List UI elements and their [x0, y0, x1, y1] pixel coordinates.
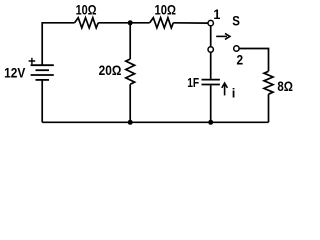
svg-text:20Ω: 20Ω [99, 62, 122, 78]
wire from switch pole to capacitor [210, 52, 212, 79]
svg-text:i: i [232, 86, 236, 101]
current arrow i pointing up beside capacitor [224, 84, 226, 95]
switch contact terminal 1 [208, 20, 213, 25]
svg-text:8Ω: 8Ω [277, 78, 293, 94]
capacitor C1 plates [202, 80, 220, 85]
voltage source V1 12V battery plates [31, 65, 54, 80]
switch blade wire from contact 1 to pole [210, 26, 212, 47]
resistor R1 10ohm zigzag [75, 18, 99, 28]
svg-text:2: 2 [236, 52, 243, 68]
battery plus polarity mark [29, 58, 36, 65]
wire top between R2 and switch contact 1 [173, 22, 208, 24]
svg-text:12V: 12V [4, 65, 25, 81]
svg-text:10Ω: 10Ω [154, 2, 175, 17]
junction node top of 20ohm branch [128, 20, 133, 25]
wire left rail bottom from battery to bottom rail [41, 80, 43, 122]
svg-text:1F: 1F [187, 77, 199, 90]
wire 20ohm branch top [129, 23, 131, 59]
svg-text:S: S [232, 12, 240, 28]
svg-text:1: 1 [213, 6, 221, 22]
wire top between R1 and R2 [98, 22, 150, 24]
resistor R4 8ohm zigzag [264, 71, 273, 94]
resistor R2 10ohm zigzag [150, 18, 174, 28]
wire capacitor to bottom rail [210, 85, 212, 122]
switch motion arrow pointing right [216, 35, 227, 37]
wire from contact 2 to 8ohm branch [239, 49, 268, 72]
switch contact terminal 2 [234, 46, 239, 51]
switch pole terminal [208, 47, 213, 52]
junction node bottom of 20ohm branch [128, 120, 133, 125]
wire left rail top and top wire to R1 [42, 23, 74, 65]
wire 8ohm branch bottom [268, 94, 270, 122]
wire bottom rail [42, 121, 268, 123]
wire 20ohm branch bottom [129, 84, 131, 122]
resistor R3 20ohm zigzag [126, 59, 135, 84]
svg-text:10Ω: 10Ω [76, 2, 97, 18]
junction node bottom of capacitor branch [208, 120, 213, 125]
